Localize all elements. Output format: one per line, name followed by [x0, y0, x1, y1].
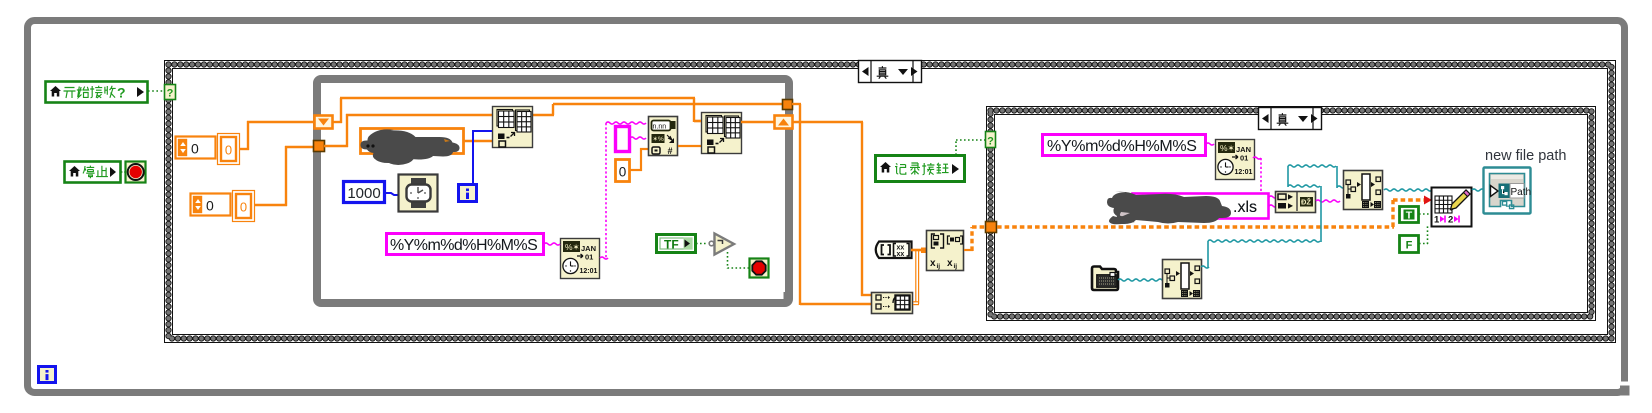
- svg-text:0: 0: [206, 198, 214, 214]
- control 开始接收?: [46, 82, 148, 103]
- array constant (empty 2D array): [876, 242, 912, 259]
- svg-text:ij: ij: [937, 263, 941, 270]
- path constant with .xls (redacted scribble): [1133, 194, 1269, 219]
- green dotted wire TF to NOT: [696, 243, 707, 245]
- shift register left (down arrow): [315, 116, 333, 129]
- icon: Wait (ms) metronome/watch: [399, 175, 438, 212]
- svg-text:%Y%m%d%H%M%S: %Y%m%d%H%M%S: [1047, 138, 1197, 155]
- case structure (inner), TRUE case: [987, 107, 1596, 321]
- dashed 2D array wire across inner case: [997, 225, 1394, 228]
- selector label outer "真": [859, 61, 922, 83]
- teal wire E0 routed to E2: [1201, 266, 1209, 268]
- svg-text:x: x: [947, 258, 953, 269]
- svg-text:Path: Path: [1511, 187, 1532, 198]
- pink wire: date/time out up to F1: [605, 123, 607, 258]
- svg-text:12:01: 12:01: [1235, 169, 1253, 176]
- svg-text:?: ?: [167, 88, 174, 100]
- wire: B1 output over to B2: [532, 114, 554, 116]
- pink wires path box to E1: [1269, 196, 1277, 198]
- dotted wire NOT to stop terminal: [727, 252, 729, 269]
- svg-text:0: 0: [225, 143, 232, 158]
- svg-text:?: ?: [987, 136, 994, 148]
- icon: Format Date/Time String (2): [1216, 140, 1255, 180]
- pink wire E1 to E2: [1316, 200, 1340, 202]
- svg-text:?: ?: [117, 85, 126, 101]
- numeric constant 1000: [344, 182, 385, 203]
- svg-text:TF: TF: [664, 238, 679, 252]
- wire VISA box to B1: [464, 140, 492, 142]
- NOT gate: [715, 234, 735, 255]
- svg-text:xx: xx: [897, 251, 905, 258]
- svg-text:0: 0: [619, 165, 627, 180]
- wires C2,C3 to C4: [911, 249, 926, 252]
- teal wire folder to E0: [1118, 279, 1166, 281]
- wire: shift reg down-arrow up and right (to right tunnel): [333, 121, 342, 123]
- svg-text:n.nn: n.nn: [653, 124, 667, 131]
- teal wire W to path indicator: [1472, 189, 1488, 191]
- svg-text:01: 01: [1240, 154, 1248, 163]
- svg-text:T: T: [1406, 210, 1413, 222]
- while loop W2: [317, 79, 789, 303]
- wire from right shift register down to C3: [793, 121, 863, 123]
- string constant %Y%m%d%H%M%S: [387, 234, 544, 255]
- wire pair2 to loop tunnel: [255, 204, 287, 206]
- boolean constant T: [1400, 207, 1419, 223]
- svg-text:1: 1: [1434, 215, 1440, 226]
- icon C4: reshape/interleave: [927, 231, 964, 271]
- icon C3: build 2x2: [872, 293, 913, 314]
- svg-text:.xls: .xls: [1233, 199, 1257, 216]
- svg-text:%Y%m%d%H%M%S: %Y%m%d%H%M%S: [390, 237, 537, 254]
- svg-text:0: 0: [191, 141, 199, 157]
- tunnel (square) on loop left border: [314, 141, 325, 152]
- indicator: new file path (Path): [1484, 168, 1531, 214]
- numeric control pair 2 (0): [191, 194, 231, 216]
- wire i-terminal to B1: [473, 130, 492, 132]
- control 记录按钮: [876, 156, 965, 182]
- dotted wire to inner case ? tunnel: [955, 139, 957, 155]
- tunnel (square) on loop top-right: [783, 100, 793, 110]
- svg-text:ÐŽ: ÐŽ: [1301, 198, 1311, 207]
- empty string constant (pink): [616, 127, 630, 152]
- icon B1: Replace Array Subset: [493, 107, 533, 148]
- VISA resource name constant (redacted scribble): [361, 129, 464, 154]
- iteration terminal i (outer loop): [39, 367, 56, 383]
- icon E0: spreadsheet string to array: [1163, 260, 1202, 299]
- wire pair1 to left shift register: [240, 148, 249, 150]
- stop button terminal: [126, 162, 146, 183]
- stop terminal (red octagon): [750, 259, 769, 278]
- tunnel ? on inner case: [986, 132, 996, 148]
- folder path constant: [1092, 267, 1118, 291]
- tunnel ? on outer case: [165, 85, 176, 100]
- string constant %Y%m%d%H%M%S (2): [1043, 135, 1206, 156]
- svg-text:01: 01: [585, 253, 593, 262]
- teal wire E2 to W: [1384, 189, 1432, 191]
- svg-text:2: 2: [1448, 215, 1453, 226]
- icon: Format Date/Time String (1): [561, 239, 600, 279]
- svg-text:%✶: %✶: [565, 242, 580, 252]
- numeric control pair 1 (0): [176, 137, 216, 159]
- case structure (outer), TRUE case: [165, 61, 1616, 343]
- svg-text:new file path: new file path: [1485, 148, 1566, 164]
- wire from tunnel down to C3: [792, 103, 801, 105]
- icon W: Write Delimited Spreadsheet.vi: [1432, 188, 1472, 227]
- shift register right (up arrow): [775, 116, 793, 129]
- svg-text:#: #: [667, 146, 672, 156]
- svg-text:%✶: %✶: [1220, 143, 1235, 153]
- boolean terminal TF: [657, 235, 696, 253]
- dashed 2D wire C4 to inner tunnel: [964, 249, 973, 251]
- svg-text:1000: 1000: [347, 185, 380, 202]
- icon E2: array to spreadsheet string: [1344, 171, 1383, 210]
- icon B2: Insert Into Array: [702, 113, 742, 154]
- wire F1 to B2: [678, 145, 701, 147]
- svg-text:12:01: 12:01: [580, 268, 598, 275]
- svg-text:F: F: [1406, 240, 1413, 252]
- svg-text:0: 0: [240, 200, 247, 215]
- icon E1: path to string + DB: [1276, 192, 1316, 213]
- wire 1000 to wait: [386, 193, 399, 195]
- wire B2 to right shift register: [741, 121, 775, 123]
- wire (green dotted) control to ? tunnel: [148, 90, 165, 92]
- svg-text:x: x: [930, 258, 936, 269]
- numeric constant 0 (orange): [616, 160, 630, 182]
- boolean constant F: [1400, 236, 1419, 253]
- tunnel (square) on inner case: [986, 222, 997, 233]
- control 停止: [65, 162, 121, 183]
- wire: tunnel to icon B1 (top input): [324, 145, 348, 147]
- svg-text:ij: ij: [954, 263, 958, 270]
- selector label inner "真": [1259, 108, 1322, 130]
- iteration terminal i: [459, 185, 477, 202]
- icon F1: Fract/Exp String To Number: [649, 117, 678, 156]
- svg-text:✶%: ✶%: [653, 135, 664, 143]
